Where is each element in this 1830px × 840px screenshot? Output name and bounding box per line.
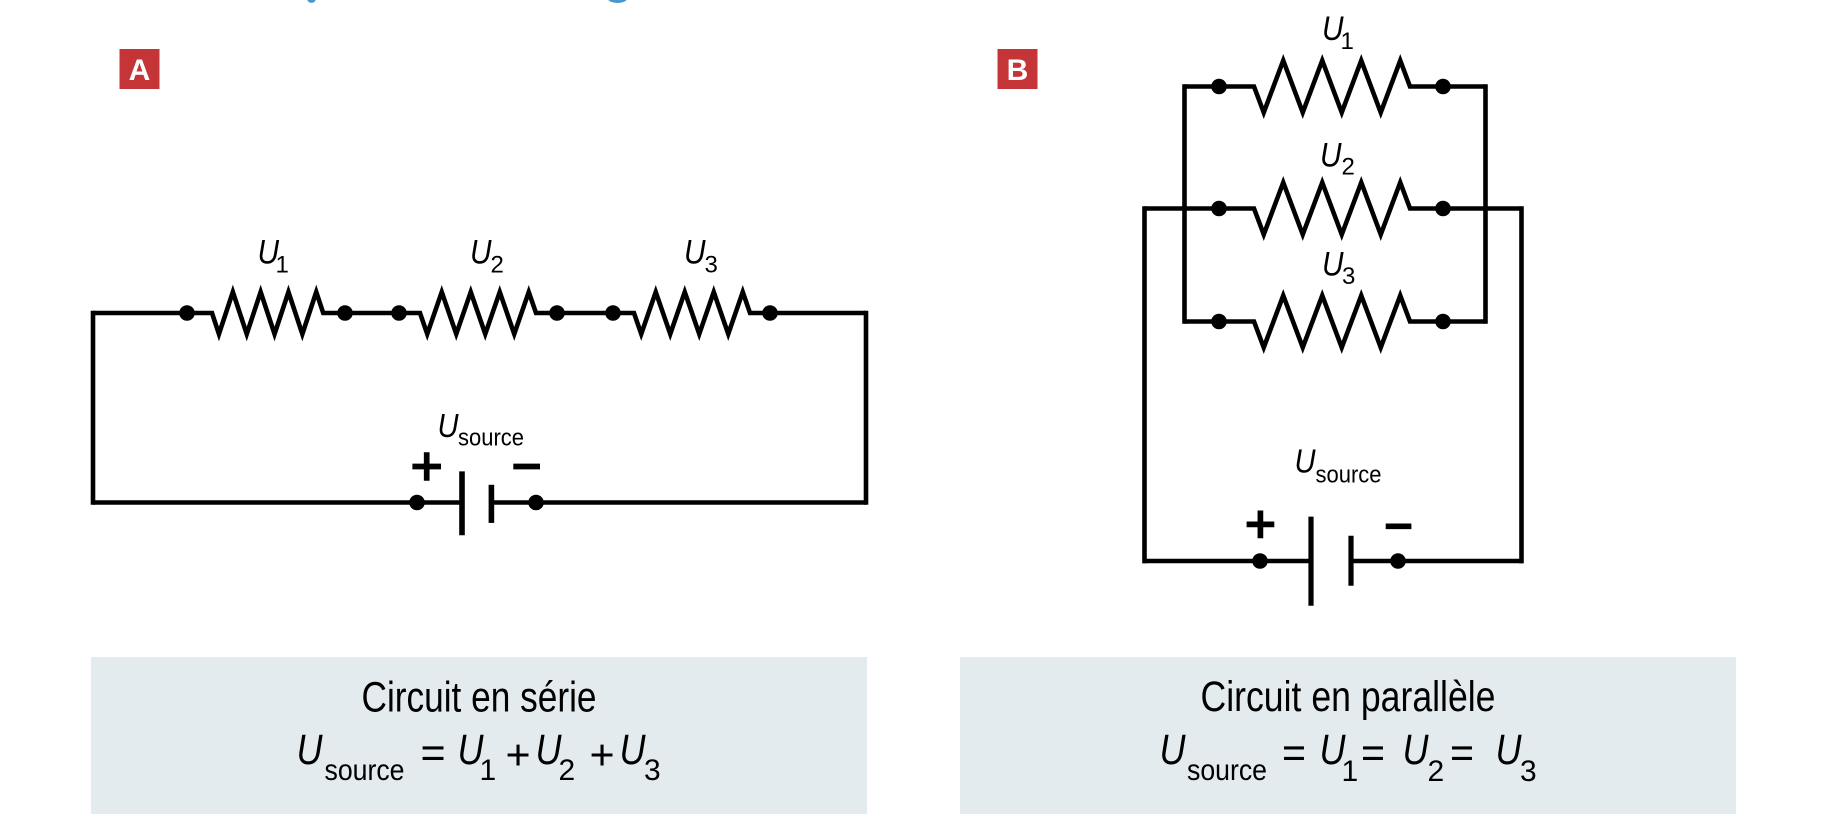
junction dot R2 right (B) <box>1435 201 1451 217</box>
wire: outer left vertical <box>1142 206 1147 563</box>
svg-text:source: source <box>1316 462 1382 489</box>
svg-text:U: U <box>297 726 324 774</box>
battery B plus sign <box>1247 511 1275 539</box>
wire: R2 row right (dot to outer) <box>1443 206 1522 211</box>
junction dot R1 left (B) <box>1211 79 1227 95</box>
svg-text:=: = <box>1450 729 1474 777</box>
junction dot R3 left (B) <box>1211 314 1227 330</box>
junction dot R3 right <box>762 305 778 321</box>
svg-text:source: source <box>1187 754 1267 787</box>
svg-text:U: U <box>1322 246 1344 284</box>
svg-text:A: A <box>129 54 151 87</box>
svg-text:+: + <box>590 732 615 780</box>
wire: B bottom-right segment (battery - plate to right) <box>1351 559 1522 564</box>
wire: outer right vertical <box>1519 206 1524 563</box>
svg-text:3: 3 <box>705 252 718 279</box>
junction dot R2 right <box>549 305 565 321</box>
battery A minus sign <box>513 464 540 470</box>
cropped blue heading fragment (p descender) <box>307 0 315 3</box>
caption box A (series) <box>91 657 867 814</box>
svg-text:2: 2 <box>559 754 576 787</box>
figure badge A <box>120 49 160 89</box>
battery B long plate (+) <box>1308 517 1313 606</box>
svg-text:B: B <box>1007 54 1029 87</box>
battery A (voltage source) <box>412 452 540 535</box>
resistor R3 (parallel) <box>1219 296 1443 348</box>
resistor R1 (series) <box>187 292 345 334</box>
wire: A left vertical <box>91 311 96 505</box>
svg-text:Circuit en parallèle: Circuit en parallèle <box>1201 673 1496 721</box>
svg-text:=: = <box>1282 729 1306 777</box>
svg-text:3: 3 <box>644 754 661 787</box>
junction dot R2 left (B) <box>1211 201 1227 217</box>
svg-text:1: 1 <box>1341 28 1354 55</box>
svg-text:+: + <box>506 732 531 780</box>
svg-text:source: source <box>458 425 524 452</box>
junction dots circuit A <box>179 305 778 510</box>
svg-text:2: 2 <box>1342 154 1355 181</box>
wire: A right vertical <box>864 311 869 505</box>
svg-text:source: source <box>325 754 405 787</box>
svg-text:U: U <box>1160 726 1187 774</box>
svg-text:U: U <box>1403 726 1430 774</box>
svg-text:=: = <box>421 729 446 777</box>
resistor R2 (parallel) <box>1219 183 1443 235</box>
junction dot R1 right (B) <box>1435 79 1451 95</box>
svg-text:U: U <box>438 407 459 444</box>
svg-text:U: U <box>1496 726 1523 774</box>
junction dot R3 right (B) <box>1435 314 1451 330</box>
svg-text:U: U <box>1320 137 1342 175</box>
resistor R3 (series) <box>613 292 770 334</box>
wire: R1 row right stub <box>1443 84 1486 89</box>
battery B (voltage source) <box>1247 511 1412 606</box>
wire: R1 row left stub <box>1185 84 1220 89</box>
svg-text:U: U <box>684 234 706 272</box>
caption formula A: Usource = U1 + U2 + U3 <box>297 726 661 787</box>
wire: inner loop left vertical <box>1182 84 1187 323</box>
svg-text:2: 2 <box>1428 755 1445 788</box>
junction dot battery A + side <box>409 495 425 511</box>
caption formula B: Usource = U1 = U2 = U3 <box>1160 726 1537 788</box>
figure badge B <box>998 49 1038 89</box>
wire: R2 row left (outer to dot) <box>1145 206 1220 211</box>
resistor R2 (series) <box>399 292 557 334</box>
junction dot R2 left <box>391 305 407 321</box>
resistor R1 (parallel) <box>1219 61 1443 113</box>
battery A plus sign <box>412 452 441 481</box>
wire: node between R1 and R2 <box>345 311 399 316</box>
caption box B (parallel) <box>960 657 1736 814</box>
svg-text:3: 3 <box>1520 755 1537 788</box>
svg-text:3: 3 <box>1342 263 1355 290</box>
wire: A top-right segment (R3 to right corner) <box>770 311 866 316</box>
battery A short plate (-) <box>489 485 495 523</box>
battery B short plate (-) <box>1348 536 1353 586</box>
junction dots circuit B <box>1211 79 1451 569</box>
wire: A bottom-right segment (battery - plate to right) <box>491 500 866 505</box>
battery B minus sign <box>1386 523 1412 529</box>
wire: inner loop right vertical <box>1483 84 1488 323</box>
svg-text:U: U <box>620 726 647 774</box>
junction dot R1 right <box>337 305 353 321</box>
svg-text:1: 1 <box>1342 755 1359 788</box>
svg-text:1: 1 <box>276 252 289 279</box>
junction dot R1 left <box>179 305 195 321</box>
junction dot R3 left <box>605 305 621 321</box>
svg-text:U: U <box>470 234 492 272</box>
svg-text:=: = <box>1361 729 1385 777</box>
junction dot battery B - side <box>1390 553 1406 569</box>
wire: R3 row right stub <box>1443 319 1486 324</box>
svg-text:U: U <box>1295 443 1316 480</box>
svg-text:1: 1 <box>480 754 497 787</box>
wire: node between R2 and R3 <box>557 311 613 316</box>
wire: A top-left segment <box>93 311 187 316</box>
svg-text:Circuit en série: Circuit en série <box>362 674 597 722</box>
wire: B bottom-left segment (to battery + plate) <box>1145 559 1312 564</box>
wire: A bottom-left segment (to battery + plate) <box>93 500 462 505</box>
cropped blue heading fragment (g descender) <box>608 0 627 3</box>
wire: R3 row left stub <box>1185 319 1220 324</box>
battery A long plate (+) <box>459 471 465 535</box>
junction dot battery B + side <box>1252 553 1268 569</box>
junction dot battery A - side <box>528 495 544 511</box>
svg-text:2: 2 <box>491 252 504 279</box>
